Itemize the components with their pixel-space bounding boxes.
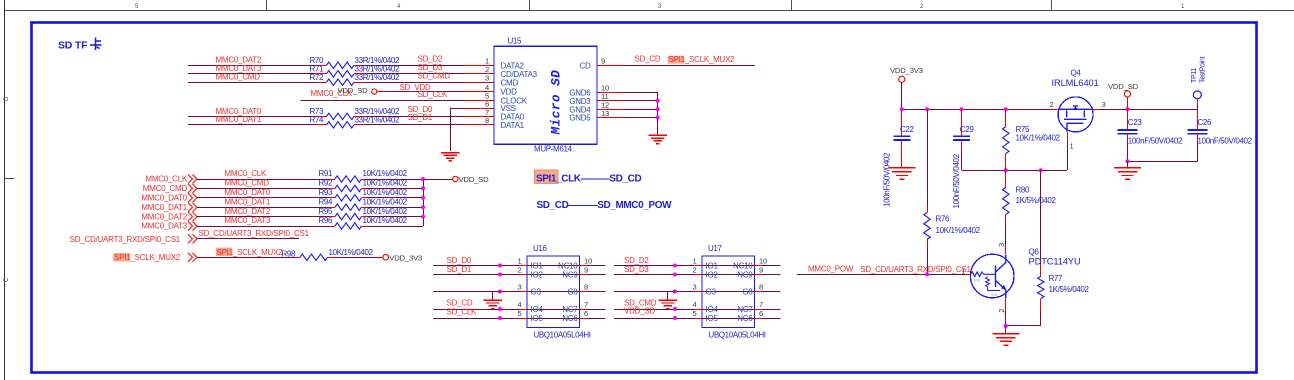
svg-text:SD_D1: SD_D1 — [408, 113, 433, 122]
svg-text:SPI1_SCLK_MUX2: SPI1_SCLK_MUX2 — [217, 248, 284, 257]
U15 pin 2 stub — [464, 73, 494, 75]
svg-text:TP11: TP11 — [1191, 68, 1198, 83]
svg-text:R74: R74 — [310, 116, 325, 125]
R94 value 10K/1%/0402 — [363, 197, 408, 206]
sheet zone number 2 — [920, 4, 924, 10]
capacitor C22 — [893, 125, 914, 140]
U15 pin 12 stub — [597, 109, 623, 111]
svg-text:MMC0_DAT3: MMC0_DAT3 — [141, 222, 187, 231]
U17 pin number 3 — [692, 283, 696, 292]
junction — [656, 116, 660, 120]
junction — [1004, 107, 1008, 111]
svg-text:IRLML6401: IRLML6401 — [1052, 78, 1099, 88]
svg-text:2: 2 — [1049, 100, 1053, 109]
U16 pin name NC7 — [562, 305, 578, 314]
wire U16 G3 to ground — [493, 292, 501, 300]
junction — [925, 272, 929, 276]
ground (U15 VSS) — [441, 153, 460, 161]
U16 pin 10 stub — [580, 265, 587, 267]
U16 pin name IO1 — [531, 262, 544, 271]
U15 pin number 11 — [601, 92, 608, 101]
Q4 pin 3 stub — [1093, 109, 1099, 111]
ground (Q6) — [992, 334, 1019, 345]
net label SD_D1 — [408, 113, 433, 122]
wire U16 through — [527, 309, 580, 311]
svg-text:10K/1%/0402: 10K/1%/0402 — [363, 179, 408, 188]
wire MMC0_DAT1 — [197, 207, 329, 209]
svg-text:U16: U16 — [533, 244, 548, 253]
U17 pin number 8 — [759, 283, 763, 292]
wire U16 right pin7 — [587, 309, 606, 311]
R74 value 33R/1%/0402 — [355, 116, 401, 125]
wire U16 pin4 — [433, 309, 520, 311]
R93 value 10K/1%/0402 — [363, 188, 408, 197]
wire MMC0_DAT0 — [188, 116, 316, 118]
sheet border tick — [791, 0, 793, 10]
net label SD_D2 — [418, 55, 443, 64]
svg-text:MMC0_DAT1: MMC0_DAT1 — [216, 115, 262, 124]
net label SD_CD — [447, 299, 473, 308]
svg-text:1: 1 — [517, 257, 521, 266]
port MMC0_DAT3 — [141, 222, 197, 231]
U15 pin name DATA0 — [501, 113, 525, 122]
U17 pin 1 stub — [695, 265, 702, 267]
net label MMC0_CLK (wire) — [225, 169, 267, 178]
wire U16 pin2 — [433, 274, 520, 276]
net label MMC0_DAT1 — [216, 115, 262, 124]
U16 pin 6 stub — [580, 318, 587, 320]
svg-text:10K/1%/0402: 10K/1%/0402 — [363, 188, 408, 197]
svg-text:TestPoint: TestPoint — [1200, 57, 1207, 83]
R96 value 10K/1%/0402 — [363, 216, 408, 225]
wire MMC0_DAT2 to bus — [368, 216, 424, 218]
junction — [673, 316, 677, 320]
resistor R75 — [1003, 109, 1030, 170]
capacitor C26 — [1187, 118, 1212, 134]
U16 pin number 10 — [584, 257, 592, 266]
svg-text:8: 8 — [485, 116, 489, 125]
svg-text:C22: C22 — [900, 125, 915, 134]
ground (U15 GND bus) — [648, 135, 667, 143]
svg-text:2: 2 — [920, 4, 924, 10]
wire U17 pin5 — [614, 318, 695, 320]
wire pull-up bus — [423, 179, 425, 226]
U15 pin 9 stub — [597, 65, 623, 67]
svg-text:1: 1 — [1070, 141, 1074, 150]
wire U17 right pin9 — [762, 274, 781, 276]
net label MMC0_POW — [808, 265, 854, 274]
svg-text:MMC0_DAT0: MMC0_DAT0 — [141, 194, 187, 203]
svg-text:4: 4 — [397, 4, 401, 10]
svg-text:C26: C26 — [1198, 118, 1213, 127]
svg-text:2: 2 — [692, 266, 696, 275]
svg-text:5: 5 — [517, 309, 521, 318]
junction — [421, 186, 425, 190]
resistor R73 — [310, 107, 366, 119]
sheet zone number 1 — [1181, 4, 1185, 10]
svg-text:MMC0_DAT1: MMC0_DAT1 — [141, 203, 187, 212]
wire U17 pin4 — [614, 309, 695, 311]
U16 pin name NC6 — [562, 314, 578, 323]
wire emitter net — [1006, 325, 1041, 327]
svg-text:UBQ10A05L04HI: UBQ10A05L04HI — [533, 330, 590, 339]
wire SD_CMD — [365, 82, 464, 84]
svg-text:IO4: IO4 — [706, 305, 719, 314]
R98 value 10K/1%/0402 — [329, 248, 374, 257]
svg-text:G3: G3 — [706, 288, 717, 297]
net label MMC0_CMD (wire) — [225, 179, 270, 188]
resistor R74 — [310, 116, 366, 128]
U15 pin name CD/DATA3 — [501, 70, 538, 79]
U15 pin number 6 — [485, 99, 489, 108]
Q6 pin 2 number — [997, 309, 1006, 313]
svg-text:NC7: NC7 — [562, 305, 578, 314]
ic U17 bus hold — [702, 244, 755, 328]
svg-text:VDD_SD: VDD_SD — [1108, 82, 1139, 91]
net label MMC0_CLK (overlap) — [311, 89, 353, 98]
svg-text:SD_CD/UART3_RXD/SPI0_CS1: SD_CD/UART3_RXD/SPI0_CS1 — [199, 229, 310, 238]
net label MMC0_DAT3 — [216, 64, 262, 73]
svg-text:NC9: NC9 — [562, 271, 578, 280]
Q6 emitter stub — [1005, 298, 1007, 311]
svg-text:U15: U15 — [508, 36, 523, 45]
wire MMC0_CMD — [188, 82, 316, 84]
sheet zone number 4 — [397, 4, 401, 10]
U17 pin 10 stub — [755, 265, 762, 267]
svg-text:IO5: IO5 — [531, 314, 544, 323]
svg-text:13: 13 — [601, 109, 609, 118]
net label SD_D0 — [408, 105, 433, 114]
svg-text:3: 3 — [997, 243, 1006, 247]
junction — [673, 273, 677, 277]
U15 value MUP-M614 — [534, 145, 573, 154]
U15 pin number 13 — [601, 109, 609, 118]
U15 pin 8 stub — [464, 124, 494, 126]
wire SD_D2 — [365, 65, 464, 67]
svg-text:4: 4 — [517, 300, 521, 309]
svg-text:1K/5%/0402: 1K/5%/0402 — [1016, 196, 1057, 205]
Q6 pin 1 number — [961, 266, 965, 275]
wire cap bottom rail — [1128, 161, 1198, 163]
U15 pin name GND6 — [569, 88, 591, 97]
U17 pin name IO1 — [706, 262, 719, 271]
svg-text:7: 7 — [584, 300, 588, 309]
svg-text:R76: R76 — [936, 215, 951, 224]
net label MMC0_DAT3 (wire) — [225, 216, 271, 225]
transistor Q6 PDTC114YU — [970, 247, 1080, 298]
wire C29 to mid rail — [961, 141, 963, 170]
U17 pin name IO4 — [706, 305, 719, 314]
port MMC0_CMD — [143, 184, 197, 193]
wire MMC0_CMD — [197, 188, 329, 190]
Q4 pin 2 number — [1049, 100, 1053, 109]
net label SD_CD — [635, 55, 661, 64]
junction — [498, 290, 502, 294]
svg-text:3: 3 — [517, 283, 521, 292]
svg-text:SD_CD: SD_CD — [635, 55, 661, 64]
svg-text:MMC0_CMD: MMC0_CMD — [143, 184, 188, 193]
svg-text:6: 6 — [584, 309, 588, 318]
wire SD_D0 — [365, 116, 464, 118]
svg-text:3: 3 — [1102, 100, 1106, 109]
wire MMC0_CLK to bus — [368, 179, 424, 181]
wire gnd stem — [1127, 161, 1129, 167]
U15 pin number 7 — [485, 108, 489, 117]
capacitor C29 — [953, 125, 974, 140]
svg-text:CMD: CMD — [501, 78, 519, 87]
resistor R76 — [924, 206, 950, 247]
U17 pin name NC7 — [737, 305, 753, 314]
svg-text:MMC0_CMD: MMC0_CMD — [216, 73, 261, 82]
U17 pin 6 stub — [755, 318, 762, 320]
C29 value 100nF/50V/0402 — [952, 153, 961, 208]
U16 pin 7 stub — [580, 309, 587, 311]
junction — [656, 99, 660, 103]
U16 pin name IO2 — [531, 271, 544, 280]
svg-text:10K: 10K — [973, 278, 980, 283]
svg-text:SD_CD/UART3_RXD/SPI0_CS1: SD_CD/UART3_RXD/SPI0_CS1 — [70, 235, 181, 244]
U17 pin number 7 — [759, 300, 763, 309]
svg-text:D: D — [4, 96, 10, 101]
U16 pin number 1 — [517, 257, 521, 266]
svg-text:C: C — [4, 277, 10, 282]
svg-text:Q6: Q6 — [1029, 247, 1040, 256]
wire U17 right pin8 — [762, 291, 781, 293]
svg-text:VDD_3V3: VDD_3V3 — [890, 66, 923, 75]
U16 pin name IO5 — [531, 314, 544, 323]
svg-text:UBQ10A05L04HI: UBQ10A05L04HI — [708, 330, 765, 339]
resistor R95 — [319, 207, 368, 220]
Q4 pin 1 stub — [1067, 132, 1069, 142]
U16 pin name NC10 — [558, 262, 578, 271]
R95 value 10K/1%/0402 — [363, 207, 408, 216]
sheet border side tick — [5, 178, 15, 180]
net label MMC0_DAT2 — [216, 56, 262, 65]
junction — [1126, 107, 1130, 111]
Q4 pin 3 number — [1102, 100, 1106, 109]
svg-text:NC6: NC6 — [737, 314, 753, 323]
svg-text:10K/1%/0402: 10K/1%/0402 — [936, 226, 981, 235]
svg-text:CD: CD — [579, 61, 591, 70]
wire SD_D1 — [365, 124, 464, 126]
svg-text:4: 4 — [692, 300, 696, 309]
net label SD_CMD — [418, 72, 451, 81]
net label MMC0_DAT0 (wire) — [225, 188, 271, 197]
U15 pin name CMD — [501, 78, 519, 87]
svg-text:10K/1%/0402: 10K/1%/0402 — [329, 248, 374, 257]
wire MMC0_DAT2 — [197, 216, 329, 218]
R92 value 10K/1%/0402 — [363, 179, 408, 188]
U15 pin name GND3 — [569, 97, 591, 106]
U15 pin number 2 — [485, 65, 489, 74]
junction — [925, 107, 929, 111]
sheet zone letter C — [4, 277, 10, 282]
svg-text:IO5: IO5 — [706, 314, 719, 323]
wire U16 pin5 — [433, 318, 520, 320]
svg-text:IO2: IO2 — [706, 271, 719, 280]
ground (U16 G3) — [483, 300, 502, 308]
svg-text:VDD_SD: VDD_SD — [338, 86, 369, 95]
net label SD_D2 — [624, 256, 649, 265]
svg-text:7: 7 — [759, 300, 763, 309]
resistor R77 — [1038, 264, 1063, 311]
ic U16 bus hold — [527, 244, 580, 328]
wire MMC0_DAT3 — [188, 73, 316, 75]
junction — [673, 264, 677, 268]
U17 pin number 6 — [759, 309, 763, 318]
wire U17 through — [702, 309, 755, 311]
wire emitter to ground node — [1005, 311, 1007, 326]
wire SD_CD/UART3_RXD/SPI0_CS1 — [197, 238, 299, 240]
U15 pin 4 stub — [464, 91, 494, 93]
U15 label Micro SD — [550, 70, 564, 136]
wire GND pin 12 — [623, 109, 658, 111]
U16 pin number 2 — [517, 266, 521, 275]
R77 value 1K/5%/0402 — [1049, 285, 1090, 294]
U15 pin number 8 — [485, 116, 489, 125]
wire gnd stem q6 — [1005, 326, 1007, 333]
resistor R94 — [319, 197, 368, 210]
svg-text:5: 5 — [692, 309, 696, 318]
power VDD_3V3 (R98) — [383, 254, 422, 263]
U17 pin name IO2 — [706, 271, 719, 280]
svg-text:10K/1%/0402: 10K/1%/0402 — [1016, 133, 1061, 142]
wire MMC0_POW base net — [797, 274, 964, 276]
wire R80 to Q6 collector — [1005, 222, 1007, 254]
U15 pin name CLOCK — [501, 96, 528, 105]
junction — [498, 307, 502, 311]
wire VDD_3V3 drop — [901, 82, 903, 135]
U15 pin number 1 — [485, 57, 489, 66]
svg-text:SD_CD: SD_CD — [447, 299, 473, 308]
svg-text:NC10: NC10 — [733, 262, 753, 271]
svg-text:10: 10 — [584, 257, 592, 266]
U16 pin 1 stub — [520, 265, 527, 267]
svg-text:IO4: IO4 — [531, 305, 544, 314]
port MMC0_DAT0 — [141, 193, 197, 202]
net label MMC0_CMD — [216, 73, 261, 82]
wire rail to R76 — [927, 109, 929, 205]
junction — [900, 107, 904, 111]
U15 pin name VSS — [501, 104, 516, 113]
junction — [673, 290, 677, 294]
svg-text:3: 3 — [658, 4, 662, 10]
wire U16 through — [527, 291, 580, 293]
svg-text:MMC0_DAT2: MMC0_DAT2 — [141, 212, 187, 221]
U16 pin number 3 — [517, 283, 521, 292]
wire U17 right pin10 — [762, 265, 781, 267]
sheet border tick — [266, 0, 268, 10]
svg-text:R93: R93 — [319, 188, 334, 197]
svg-text:SD_D0: SD_D0 — [447, 256, 472, 265]
U17 pin number 2 — [692, 266, 696, 275]
wire GND pin 10 — [623, 92, 658, 94]
net label MMC0_DAT0 — [216, 107, 262, 116]
wire C22 to ground — [901, 141, 903, 168]
U16 pin name G3 — [531, 288, 542, 297]
svg-text:1: 1 — [1181, 4, 1185, 10]
wire U17 through — [702, 265, 755, 267]
net label SD_CD/UART3_RXD/SPI0_CS1 (base) — [860, 265, 971, 274]
svg-text:10: 10 — [759, 257, 767, 266]
wire SD_CLK — [300, 100, 464, 102]
wire rail to C26 — [1197, 109, 1199, 129]
svg-text:DATA1: DATA1 — [501, 121, 525, 130]
wire MMC0_DAT2 — [188, 65, 316, 67]
U17 pin number 1 — [692, 257, 696, 266]
U17 pin 4 stub — [695, 309, 702, 311]
svg-text:R96: R96 — [319, 216, 334, 225]
wire SD_D3 — [365, 73, 464, 75]
wire U16 right pin10 — [587, 265, 606, 267]
svg-text:10K/1%/0402: 10K/1%/0402 — [363, 197, 408, 206]
power VDD_SD (U15) — [338, 86, 377, 95]
U15 pin 13 stub — [597, 117, 623, 119]
svg-text:VDD_SD: VDD_SD — [624, 307, 655, 316]
R91 value 10K/1%/0402 — [363, 169, 408, 178]
sheet zone number 3 — [658, 4, 662, 10]
U15 pin number 10 — [601, 84, 609, 93]
svg-text:SD_CLK: SD_CLK — [418, 90, 449, 99]
wire C26 down — [1197, 134, 1199, 161]
U16 pin number 5 — [517, 309, 521, 318]
svg-text:MMC0_POW: MMC0_POW — [808, 265, 854, 274]
sheet zone number 5 — [135, 4, 139, 10]
U17 pin 5 stub — [695, 318, 702, 320]
U16 pin number 9 — [584, 266, 588, 275]
junction — [960, 107, 964, 111]
svg-text:2: 2 — [997, 309, 1006, 313]
R80 value 1K/5%/0402 — [1016, 196, 1057, 205]
net label SPI1_SCLK_MUX2 (pin9) — [668, 55, 735, 64]
ground (C23/C26) — [1114, 168, 1141, 179]
sheet zone letter D — [4, 96, 10, 101]
U16 pin 3 stub — [520, 291, 527, 293]
ic U15 Micro SD — [494, 36, 597, 144]
U16 pin 4 stub — [520, 309, 527, 311]
wire SPI1_SCLK_MUX2 — [197, 257, 294, 259]
svg-text:C29: C29 — [960, 125, 975, 134]
R75 value 10K/1%/0402 — [1016, 133, 1061, 142]
svg-text:R94: R94 — [319, 197, 334, 206]
wire U16 right pin9 — [587, 274, 606, 276]
ground (U17 G3) — [658, 300, 677, 308]
wire rail to C23 — [1127, 109, 1129, 129]
wire TP11 drop — [1197, 99, 1199, 109]
Q6 pin 1 stub — [964, 274, 970, 276]
svg-text:SD_CD/UART3_RXD/SPI0_CS1: SD_CD/UART3_RXD/SPI0_CS1 — [860, 265, 971, 274]
wire U16 right pin8 — [587, 291, 606, 293]
Q4 pin 2 stub — [1052, 109, 1059, 111]
svg-text:1: 1 — [961, 266, 965, 275]
net label SD_D0 — [447, 256, 472, 265]
svg-text:IO2: IO2 — [531, 271, 544, 280]
junction — [421, 205, 425, 209]
wire U16 through — [527, 318, 580, 320]
U15 pin 10 stub — [597, 92, 623, 94]
C22 value 100nF/50V/0402 — [883, 152, 892, 207]
svg-text:SPI1_SCLK_MUX2: SPI1_SCLK_MUX2 — [114, 253, 181, 262]
svg-text:3: 3 — [692, 283, 696, 292]
port MMC0_DAT1 — [141, 203, 197, 212]
svg-text:R91: R91 — [319, 169, 334, 178]
wire U17 right pin7 — [762, 309, 781, 311]
U15 pin name GND5 — [569, 114, 591, 123]
U16 pin number 8 — [584, 283, 588, 292]
U15 pin number 9 — [601, 57, 605, 66]
resistor R70 — [310, 56, 366, 68]
U15 pin 1 stub — [464, 65, 494, 67]
